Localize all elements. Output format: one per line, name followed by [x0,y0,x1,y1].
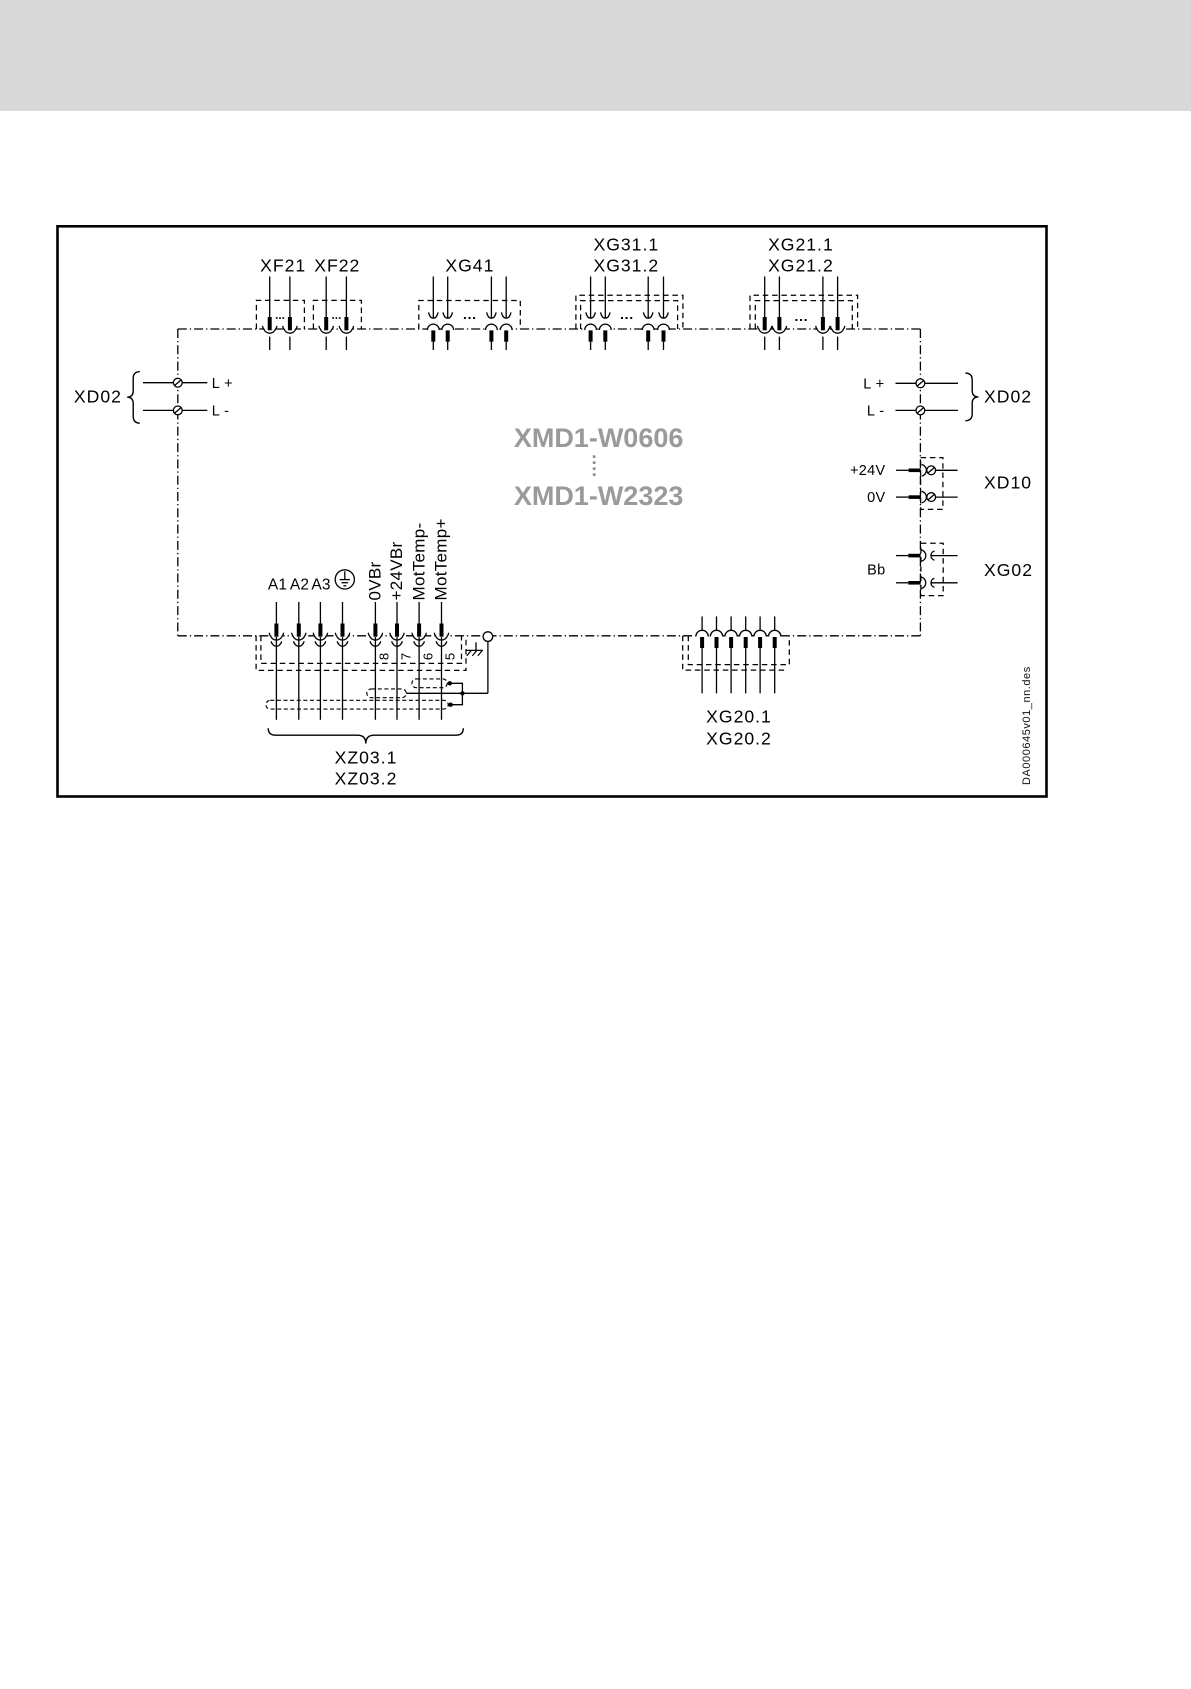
wire L+ left [143,382,207,384]
svg-text:XZ03.2: XZ03.2 [335,769,398,789]
svg-text:XG31.2: XG31.2 [593,256,659,276]
connector XG41 ellipsis [464,317,475,319]
svg-text:XMD1-W0606: XMD1-W0606 [514,423,684,453]
label +24VBr [387,541,406,600]
connector XF22 dashed outline [313,300,361,329]
connector XF22 ellipsis [332,317,340,319]
label L- right [867,403,885,419]
label MotTemp- [409,523,428,601]
svg-text:7: 7 [398,653,413,660]
label 0V [867,490,885,506]
connector XF21 dashed outline [256,300,304,329]
label A2 [290,577,309,594]
cable shield MotTemp pair [412,679,447,688]
connector XZ03 pin PE [335,602,349,720]
terminal XD02 right label [984,387,1032,407]
connector XG02 label [984,560,1033,580]
svg-text:A2: A2 [290,577,309,594]
svg-text:MotTemp+: MotTemp+ [432,518,451,600]
svg-text:L -: L - [212,403,230,419]
junction dot shield MotTemp [448,681,452,685]
connector XG21.1 dashed outline [750,295,858,329]
wire L- left [143,409,207,411]
terminal XD02 right brace [965,373,978,421]
svg-text:+24VBr: +24VBr [387,541,406,600]
connector XG02 dashed outline [921,543,943,595]
wire L- right [896,409,959,411]
svg-text:XG21.1: XG21.1 [768,234,834,254]
wire harness left edge [177,329,179,636]
diagram frame [58,226,1047,796]
drawing file name [1021,666,1033,785]
connector XG41 label [445,256,494,276]
connector XG31.2 dashed outline [581,301,678,329]
pin number 8 [377,653,392,660]
connector XZ03 pin MotTemp- [412,602,426,720]
connector XG21 pin 4 [830,277,844,351]
connector XG41 pin 4 [500,277,512,351]
connector XG20 pin 5 [754,616,766,693]
connector XZ03 pin +24VBr [390,602,404,720]
connector XZ03 pin A1 [269,602,283,720]
connector XG31.1 dashed outline [576,295,683,329]
connector XZ03 pin 0VBr [368,602,382,720]
protective earth symbol (circled) [335,570,354,589]
svg-text:+24V: +24V [850,463,885,479]
connector XG21.2 label [768,256,834,276]
cable shield power wires [266,700,448,709]
svg-text:XG20.1: XG20.1 [706,706,772,726]
terminal XD02 left brace [127,372,140,424]
wire shield Br to ground [406,692,488,694]
connector XG20 pin 3 [725,616,737,693]
svg-text:8: 8 [377,653,392,660]
connector XG02 pin 1 [896,550,958,562]
cable designation ellipsis [593,455,596,476]
svg-text:XG31.1: XG31.1 [593,234,659,254]
svg-text:0VBr: 0VBr [366,561,385,600]
svg-text:XD02: XD02 [984,387,1032,407]
connector XG20 pin 4 [740,616,752,693]
connector XG02 pin 2 [896,577,958,589]
svg-text:XD10: XD10 [984,472,1032,492]
connector XG21.2 dashed outline [755,301,852,329]
connector XG31 pin 2 [599,277,611,351]
gray header band [0,0,1191,111]
connector XG20.2 dashed outline [688,636,789,665]
connector XZ03 pin A3 [313,602,327,720]
terminal XD02 left L- screw [173,406,182,415]
connector XG21 ellipsis [795,319,806,321]
label L+ left [212,376,233,392]
wire L+ right [896,382,959,384]
label 0VBr [366,561,385,600]
connector XF21 label [260,256,306,276]
connector XZ03 pin A2 [292,602,306,720]
svg-text:XG02: XG02 [984,560,1033,580]
label A1 [268,577,287,594]
svg-text:6: 6 [420,653,435,660]
ground node circle [483,632,493,642]
svg-text:Bb: Bb [867,562,885,578]
connector XG20 pin 1 [696,616,708,693]
connector XG41 pin 1 [427,277,439,351]
label L+ right [863,376,884,392]
svg-text:MotTemp-: MotTemp- [409,523,428,601]
svg-text:XZ03.1: XZ03.1 [335,747,398,767]
cable designation XMD1-W0606 [514,423,684,453]
wire ground drop [487,641,489,693]
label +24V [850,463,885,479]
connector XF22 label [314,256,360,276]
connector XG21 pin 1 [758,277,772,351]
connector XG21 pin 2 [772,277,786,351]
connector XZ03.1 label [335,747,398,767]
connector XZ03.2 label [335,769,398,789]
connector XG41 pin 2 [442,277,454,351]
svg-text:XF22: XF22 [314,256,360,276]
connector XG20.2 label [706,729,772,749]
svg-text:DA000645v01_nn.des: DA000645v01_nn.des [1021,666,1033,785]
svg-text:L +: L + [863,376,884,392]
svg-text:XF21: XF21 [260,256,306,276]
label L- left [212,403,230,419]
wire harness bottom edge [178,635,921,637]
pin number 6 [420,653,435,660]
connector XG31 pin 1 [585,277,597,351]
svg-text:XMD1-W2323: XMD1-W2323 [514,481,684,511]
connector XF21 pin 2 [283,277,297,351]
chassis ground symbol [467,642,484,656]
svg-text:A1: A1 [268,577,287,594]
cable designation XMD1-W2323 [514,481,684,511]
terminal XD02 left label [74,387,122,407]
XZ03 group brace [268,728,463,743]
connector XG31 pin 3 [642,277,654,351]
label MotTemp+ [432,518,451,600]
connector XG21 pin 3 [816,277,830,351]
connector XF21 pin 1 [263,277,277,351]
svg-text:XG41: XG41 [445,256,494,276]
svg-text:XD02: XD02 [74,387,122,407]
wire shield MotTemp to ground [447,683,462,693]
connector XG20 pin 6 [769,616,781,693]
wire harness right edge [919,329,921,636]
connector XD10 pin +24V [896,465,958,477]
connector XF21 ellipsis [276,317,284,319]
connector XG20.1 label [706,706,772,726]
label Bb [867,562,885,578]
connector XG41 dashed outline [419,301,521,330]
connector XG20 pin 2 [710,616,722,693]
terminal XD02 right L- screw [916,406,925,415]
svg-text:A3: A3 [311,577,330,594]
connector XZ03.2 dashed outline [261,636,462,664]
pin number 7 [398,653,413,660]
wire harness top edge [178,328,921,330]
svg-text:XG20.2: XG20.2 [706,729,772,749]
connector XZ03.1 dashed outline [256,636,466,671]
terminal XD02 right L+ screw [916,379,925,388]
wire shield power to ground [448,693,462,704]
connector XG21.1 label [768,234,834,254]
connector XD10 label [984,472,1032,492]
junction dot shield power [448,703,452,707]
connector XG20.1 dashed outline [683,636,786,670]
cable shield Br pair [367,689,406,698]
svg-text:XG21.2: XG21.2 [768,256,834,276]
svg-text:5: 5 [443,653,458,660]
svg-text:L +: L + [212,376,233,392]
connector XF22 pin 2 [339,277,353,351]
connector XG31 pin 4 [658,277,670,351]
junction dot shield mid [460,691,464,695]
svg-text:0V: 0V [867,490,885,506]
terminal XD02 left L+ screw [173,378,182,387]
svg-text:L -: L - [867,403,885,419]
connector XG31.2 label [593,256,659,276]
connector XF22 pin 1 [319,277,333,351]
connector XD10 pin 0V [896,491,958,503]
pin number 5 [443,653,458,660]
connector XG41 pin 3 [486,277,498,351]
connector XG31 ellipsis [621,317,632,319]
connector XZ03 pin MotTemp+ [434,602,448,720]
connector XG31.1 label [593,234,659,254]
connector XD10 dashed outline [921,458,943,510]
label A3 [311,577,330,594]
